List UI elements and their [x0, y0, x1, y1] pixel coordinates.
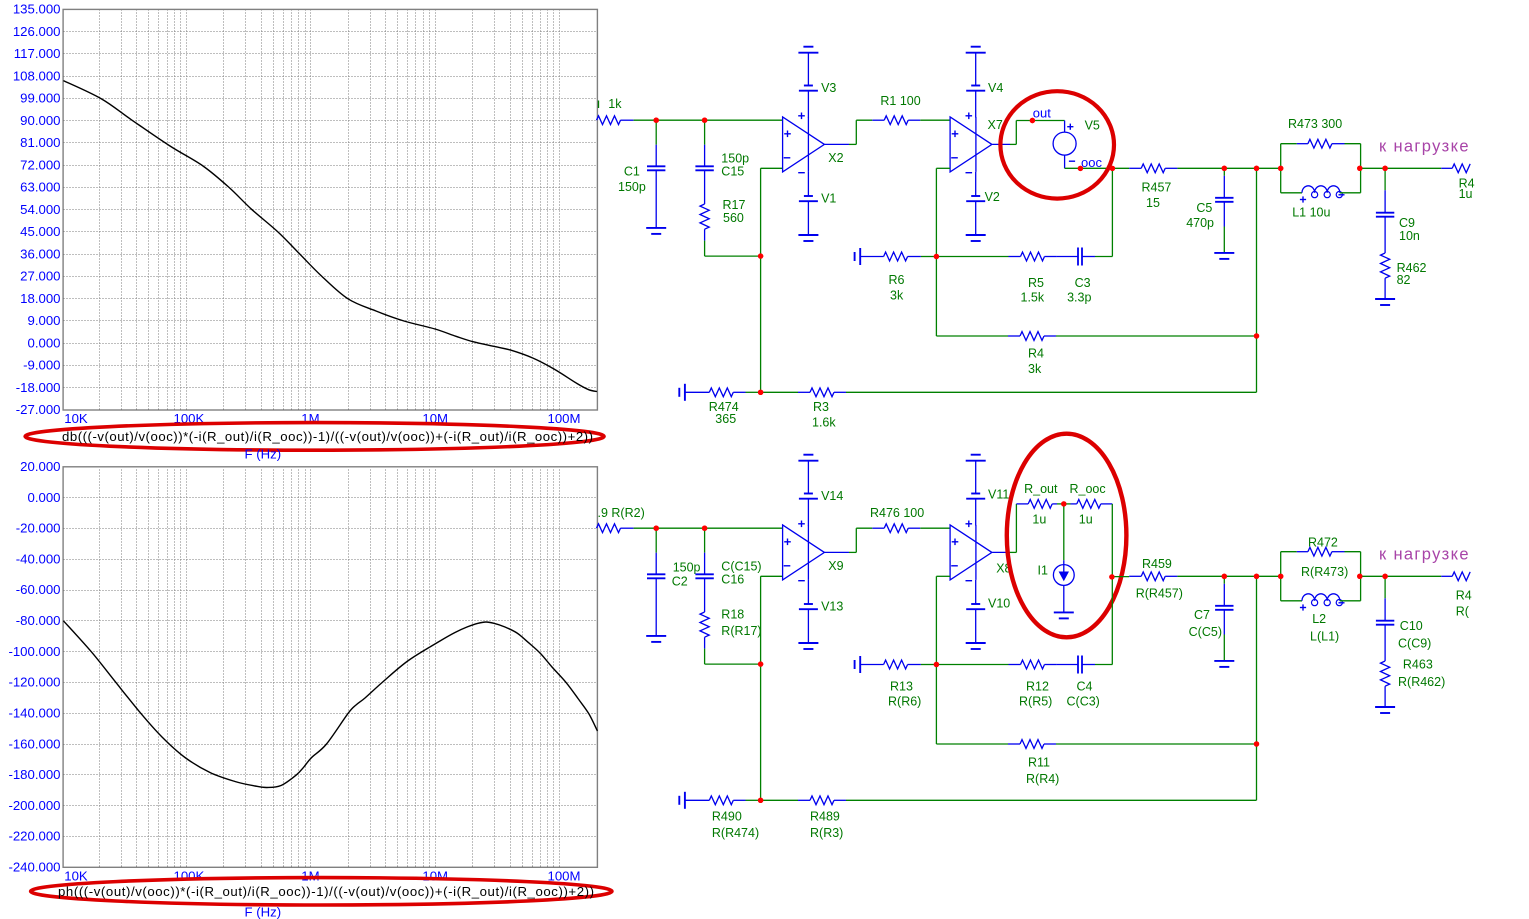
- wire row to rail: [1224, 167, 1256, 169]
- resistor R13 R(R6) [lower]: [860, 660, 936, 708]
- wire feedback row: [936, 256, 1008, 258]
- phase x-axis labels: [64, 869, 580, 884]
- svg-text:R473 300: R473 300: [1288, 117, 1342, 131]
- svg-text:C(C15): C(C15): [721, 560, 761, 574]
- ground above V3: [798, 47, 818, 86]
- resistor R489 R(R3) [lower]: [798, 796, 846, 840]
- ground under C7 [lower]: [1214, 661, 1234, 667]
- svg-text:-60.000: -60.000: [16, 582, 61, 597]
- node C10 junction [lower]: [1382, 574, 1387, 579]
- svg-text:R(R457): R(R457): [1136, 587, 1183, 601]
- svg-text:-27.000: -27.000: [16, 402, 61, 417]
- F (Hz) label bottom: [245, 905, 282, 919]
- svg-text:L1 10u: L1 10u: [1292, 205, 1330, 219]
- node R4 rail junction [lower]: [1254, 741, 1259, 746]
- svg-text:X2: X2: [828, 151, 843, 165]
- resistor R490 R(R474) [lower]: [685, 796, 761, 840]
- svg-text:db(((-v(out)/v(ooc))*(-i(R_out: db(((-v(out)/v(ooc))*(-i(R_out)/i(R_ooc)…: [62, 429, 593, 444]
- svg-text:-160.000: -160.000: [8, 736, 60, 751]
- resistor R472 R(R473) [lower]: [1281, 536, 1361, 601]
- svg-text:150p: 150p: [673, 561, 701, 575]
- svg-text:9.000: 9.000: [27, 313, 60, 328]
- resistor R12 R(R5) [lower]: [1009, 660, 1057, 708]
- svg-text:0.000: 0.000: [27, 335, 60, 350]
- svg-text:C(C5): C(C5): [1189, 625, 1222, 639]
- node C9 junction: [1382, 166, 1387, 171]
- svg-text:F (Hz): F (Hz): [245, 447, 282, 462]
- svg-text:C16: C16: [721, 573, 744, 587]
- capacitor C16 C(C15) [lower]: [695, 528, 761, 612]
- op-amp X8 [lower]: [950, 521, 1011, 581]
- svg-text:18.000: 18.000: [20, 291, 60, 306]
- capacitor C7 C(C5) [lower]: [1189, 576, 1234, 660]
- node box left [lower]: [1278, 574, 1283, 579]
- svg-text:-80.000: -80.000: [16, 613, 61, 628]
- svg-text:560: 560: [723, 211, 744, 225]
- node input junction 2 [lower]: [702, 526, 707, 531]
- svg-text:81.000: 81.000: [20, 135, 60, 150]
- svg-text:54.000: 54.000: [20, 202, 60, 217]
- resistor R11 R(R4) [lower]: [1008, 740, 1257, 786]
- wire -in stub: [761, 167, 783, 169]
- label to-load: [1379, 138, 1469, 156]
- ground below V2: [966, 201, 986, 241]
- svg-text:R12: R12: [1026, 679, 1049, 693]
- source V5: [1053, 119, 1100, 169]
- svg-text:R18: R18: [721, 608, 744, 622]
- svg-text:R_ooc: R_ooc: [1070, 482, 1106, 496]
- capacitor C4 C(C3) [lower]: [1057, 656, 1113, 709]
- resistor R463 R(R462) [lower]: [1381, 658, 1446, 707]
- svg-text:1u: 1u: [1079, 513, 1093, 527]
- label to-load [lower]: [1379, 546, 1469, 564]
- svg-text:10M: 10M: [422, 869, 448, 884]
- resistor R5 1.5k: [1009, 252, 1057, 304]
- svg-text:0.000: 0.000: [27, 490, 60, 505]
- svg-text:.9 R(R2): .9 R(R2): [598, 506, 645, 520]
- red circle annotation V5: [1000, 91, 1114, 198]
- node R4 rail junction: [1254, 333, 1259, 338]
- svg-text:R(R473): R(R473): [1301, 565, 1348, 579]
- svg-text:365: 365: [715, 412, 736, 426]
- resistor R475 R(R2) (input, partially hidden) [lower]: [597, 506, 645, 533]
- ground below V13 [lower]: [798, 609, 818, 649]
- svg-text:C7: C7: [1194, 608, 1210, 622]
- svg-text:-40.000: -40.000: [16, 551, 61, 566]
- svg-text:L2: L2: [1312, 612, 1326, 626]
- svg-text:R_out: R_out: [1024, 482, 1058, 496]
- wire opamp2 -in [lower]: [936, 576, 950, 664]
- svg-text:27.000: 27.000: [20, 269, 60, 284]
- magnitude y-axis labels: [13, 2, 61, 418]
- battery V11 [lower]: [966, 488, 1009, 526]
- svg-text:-220.000: -220.000: [8, 829, 60, 844]
- ground under R462: [1375, 299, 1395, 305]
- svg-text:36.000: 36.000: [20, 246, 60, 261]
- svg-text:3k: 3k: [1028, 362, 1042, 376]
- svg-text:1k: 1k: [608, 97, 622, 111]
- svg-text:90.000: 90.000: [20, 113, 60, 128]
- battery V10 [lower]: [966, 580, 1010, 611]
- svg-text:C3: C3: [1075, 276, 1091, 290]
- svg-text:150p: 150p: [721, 152, 749, 166]
- gain curve db: [63, 81, 597, 392]
- phase curve: [63, 621, 597, 788]
- battery V3: [799, 81, 837, 117]
- resistor R18 R(R17) [lower]: [700, 608, 762, 649]
- svg-text:R4: R4: [1028, 347, 1044, 361]
- svg-text:C15: C15: [721, 165, 744, 179]
- svg-text:R13: R13: [890, 679, 913, 693]
- svg-text:10n: 10n: [1399, 229, 1420, 243]
- svg-text:V13: V13: [821, 599, 843, 613]
- inductor L1 10u: [1281, 186, 1361, 220]
- node feedback junction: [934, 254, 939, 259]
- wire opamp1 output: [824, 120, 872, 144]
- wire bottom feedback row: [761, 391, 1257, 393]
- svg-text:-180.000: -180.000: [8, 767, 60, 782]
- svg-text:R(R474): R(R474): [712, 826, 759, 840]
- node input junction 2: [702, 118, 707, 123]
- wire R17 bottom to -in rail: [705, 241, 761, 257]
- svg-text:1.5k: 1.5k: [1021, 291, 1045, 305]
- wire -in stub [lower]: [761, 575, 783, 577]
- svg-text:R5: R5: [1028, 276, 1044, 290]
- wire input row: [634, 119, 783, 121]
- svg-text:R457: R457: [1142, 181, 1172, 195]
- svg-text:V2: V2: [985, 190, 1000, 204]
- op-amp X7: [950, 113, 1003, 173]
- capacitor C10 C(C9) [lower]: [1376, 576, 1431, 661]
- svg-text:C9: C9: [1399, 216, 1415, 230]
- node -in rail junction [lower]: [758, 661, 763, 666]
- svg-text:20.000: 20.000: [20, 459, 60, 474]
- phase y-axis labels: [8, 459, 60, 875]
- ground left of R490 [lower]: [679, 792, 685, 809]
- svg-text:V4: V4: [988, 81, 1003, 95]
- svg-text:-240.000: -240.000: [8, 860, 60, 875]
- db expression annotation ellipse: [25, 423, 604, 451]
- wire feedback rail right [lower]: [1256, 576, 1258, 800]
- node feedback junction [lower]: [934, 662, 939, 667]
- svg-text:F (Hz): F (Hz): [245, 905, 282, 919]
- node R474 junction [lower]: [758, 798, 763, 803]
- resistor R_out 1u [lower]: [1016, 482, 1063, 527]
- node feedback rail top: [1254, 166, 1259, 171]
- wire -in rail [lower]: [760, 576, 762, 800]
- node R_out/R_ooc junction [lower]: [1061, 501, 1066, 506]
- ground under C1: [646, 228, 666, 234]
- node input junction 1 [lower]: [654, 526, 659, 531]
- wire input row [lower]: [634, 527, 783, 529]
- svg-text:10K: 10K: [64, 411, 88, 426]
- current source I1 [lower]: [1038, 504, 1075, 612]
- node ooc junction: [1110, 166, 1115, 171]
- svg-text:R463: R463: [1403, 658, 1433, 672]
- node box right: [1357, 166, 1362, 171]
- svg-text:R(R5): R(R5): [1019, 695, 1052, 709]
- wire R1 to opamp2 [lower]: [920, 527, 950, 529]
- wire row to rail [lower]: [1224, 575, 1256, 577]
- svg-text:3k: 3k: [890, 289, 904, 303]
- wire C4 riser [lower]: [1111, 577, 1113, 665]
- wire row to LR box: [1257, 167, 1281, 169]
- battery V14 [lower]: [799, 489, 843, 525]
- svg-text:117.000: 117.000: [14, 46, 61, 61]
- svg-text:72.000: 72.000: [20, 157, 60, 172]
- svg-text:15: 15: [1146, 196, 1160, 210]
- svg-text:100M: 100M: [548, 411, 581, 426]
- battery V1: [799, 172, 837, 205]
- resistor R4 3k: [1008, 332, 1257, 376]
- svg-text:10K: 10K: [64, 869, 88, 884]
- capacitor C5 470p: [1186, 168, 1233, 252]
- resistor R17 560: [700, 198, 745, 241]
- wire R1 to opamp2: [920, 119, 950, 121]
- svg-text:R(R4): R(R4): [1026, 772, 1059, 786]
- node feedback rail top (lower) [lower]: [1254, 574, 1259, 579]
- svg-text:ph(((-v(out)/v(ooc))*(-i(R_out: ph(((-v(out)/v(ooc))*(-i(R_out)/i(R_ooc)…: [58, 884, 594, 899]
- wire ooc row [lower]: [1112, 576, 1129, 578]
- wire opamp1 output [lower]: [824, 528, 872, 552]
- resistor R462 82: [1381, 253, 1427, 299]
- battery V2: [966, 172, 1000, 204]
- svg-text:1u: 1u: [1032, 513, 1046, 527]
- svg-text:V14: V14: [821, 489, 843, 503]
- phase plot grid: [64, 467, 598, 868]
- capacitor C9 10n: [1376, 168, 1420, 253]
- svg-text:R11: R11: [1028, 756, 1050, 770]
- magnitude plot grid: [64, 10, 598, 411]
- node ooc row junction [lower]: [1109, 574, 1114, 579]
- red ellipse annotation I1 [lower]: [1007, 434, 1127, 638]
- svg-text:ooc: ooc: [1081, 155, 1102, 170]
- svg-text:82: 82: [1397, 273, 1411, 287]
- inductor L2 L(L1) [lower]: [1281, 594, 1361, 644]
- wire box to load node: [1361, 167, 1442, 169]
- wire feedback rail right: [1256, 168, 1258, 392]
- svg-text:63.000: 63.000: [20, 180, 60, 195]
- wire row to LR box [lower]: [1257, 575, 1281, 577]
- wire R_ooc down [lower]: [1111, 504, 1113, 577]
- svg-text:R(: R(: [1456, 605, 1470, 619]
- svg-text:99.000: 99.000: [20, 91, 60, 106]
- magnitude plot frame: [63, 9, 597, 410]
- wire -in rail to R4 row [lower]: [936, 665, 1008, 745]
- svg-text:-120.000: -120.000: [8, 675, 60, 690]
- svg-text:-200.000: -200.000: [8, 798, 60, 813]
- resistor R6 3k: [860, 252, 936, 302]
- resistor R459 R(R457) [lower]: [1129, 557, 1224, 601]
- capacitor C2 [lower]: [647, 528, 701, 635]
- ground above V14 [lower]: [798, 455, 818, 494]
- svg-text:R3: R3: [813, 400, 829, 414]
- wire X8 output riser [lower]: [992, 504, 1016, 553]
- svg-text:R(R17): R(R17): [721, 624, 761, 638]
- wire C3 riser: [1111, 168, 1113, 256]
- node ooc: [1078, 155, 1103, 171]
- ground under C5: [1214, 253, 1234, 259]
- svg-text:R(R462): R(R462): [1398, 675, 1445, 689]
- svg-text:3.3p: 3.3p: [1067, 291, 1091, 305]
- svg-text:I1: I1: [1038, 564, 1048, 578]
- svg-text:-9.000: -9.000: [23, 358, 60, 373]
- svg-text:C5: C5: [1196, 201, 1212, 215]
- svg-text:C2: C2: [672, 575, 688, 589]
- battery V4: [966, 81, 1003, 117]
- resistor R_ooc 1u [lower]: [1064, 482, 1113, 527]
- svg-text:150p: 150p: [618, 180, 646, 194]
- wire R17 bottom to -in rail [lower]: [705, 649, 761, 665]
- svg-text:out: out: [1033, 105, 1051, 120]
- resistor R457 15: [1129, 164, 1224, 210]
- svg-text:R476 100: R476 100: [870, 506, 924, 520]
- svg-text:V3: V3: [821, 81, 836, 95]
- resistor R3 1.6k: [798, 388, 846, 430]
- phase plot frame: [63, 467, 597, 868]
- svg-text:R1 100: R1 100: [880, 94, 920, 108]
- svg-text:V5: V5: [1085, 119, 1100, 133]
- node input junction 1: [654, 118, 659, 123]
- svg-text:C10: C10: [1400, 619, 1423, 633]
- svg-text:R(R6): R(R6): [888, 695, 921, 709]
- wire -in rail: [760, 168, 762, 392]
- svg-text:1u: 1u: [1459, 187, 1473, 201]
- svg-text:V1: V1: [821, 191, 836, 205]
- wire bottom feedback row [lower]: [761, 799, 1257, 801]
- node R474 junction: [758, 390, 763, 395]
- battery V13 [lower]: [799, 580, 843, 613]
- ph expression annotation ellipse: [31, 878, 612, 905]
- svg-text:R459: R459: [1142, 557, 1172, 571]
- ground above V11 [lower]: [966, 455, 986, 494]
- resistor R2 1k (input, partially hidden): [597, 97, 634, 125]
- svg-text:C1: C1: [624, 164, 640, 178]
- svg-text:45.000: 45.000: [20, 224, 60, 239]
- capacitor C1 150p: [618, 120, 665, 227]
- node -in rail junction: [758, 253, 763, 258]
- svg-text:470p: 470p: [1186, 216, 1214, 230]
- svg-text:100K: 100K: [173, 869, 204, 884]
- resistor R461 (clipped) [lower]: [1441, 572, 1472, 619]
- F (Hz) label top: [245, 447, 282, 462]
- op-amp X9 [lower]: [783, 521, 844, 581]
- svg-text:V10: V10: [988, 597, 1010, 611]
- resistor R474 365: [685, 388, 761, 426]
- resistor R476 100 [lower]: [870, 506, 924, 533]
- svg-text:126.000: 126.000: [13, 24, 61, 39]
- ground left of R6: [855, 248, 861, 265]
- svg-text:R490: R490: [712, 810, 742, 824]
- resistor R1 100: [872, 94, 920, 124]
- svg-text:C(C3): C(C3): [1067, 695, 1100, 709]
- resistor R460 1u (clipped): [1441, 164, 1474, 201]
- db expression text: [62, 429, 593, 444]
- svg-text:R489: R489: [810, 810, 840, 824]
- resistor R473 300: [1281, 117, 1361, 193]
- svg-text:-140.000: -140.000: [8, 706, 60, 721]
- wire box to load node [lower]: [1361, 575, 1442, 577]
- svg-text:V11: V11: [988, 488, 1009, 502]
- wire opamp2 -in: [936, 168, 950, 256]
- wire feedback row [lower]: [936, 664, 1008, 666]
- wire X7 output to out node: [992, 121, 1064, 145]
- svg-text:1.6k: 1.6k: [812, 416, 836, 430]
- svg-text:-20.000: -20.000: [16, 521, 61, 536]
- magnitude x-axis labels: [64, 411, 580, 426]
- svg-text:X9: X9: [828, 559, 843, 573]
- svg-text:135.000: 135.000: [13, 2, 61, 17]
- capacitor C15 150p: [695, 120, 749, 204]
- svg-text:C(C9): C(C9): [1398, 637, 1431, 651]
- ground below I1 [lower]: [1054, 612, 1074, 618]
- svg-text:R472: R472: [1308, 536, 1338, 550]
- wire ooc row: [1065, 167, 1130, 169]
- ground above V4: [966, 47, 986, 86]
- svg-text:-18.000: -18.000: [16, 380, 61, 395]
- svg-text:R4: R4: [1456, 589, 1472, 603]
- node box right [lower]: [1357, 574, 1362, 579]
- op-amp X2: [783, 113, 844, 173]
- svg-text:L(L1): L(L1): [1310, 630, 1339, 644]
- svg-text:C4: C4: [1077, 679, 1093, 693]
- ground left of R13 [lower]: [855, 656, 861, 673]
- svg-text:-100.000: -100.000: [8, 644, 60, 659]
- ground under R463 [lower]: [1375, 707, 1395, 713]
- ground below V1: [798, 201, 818, 241]
- svg-text:R6: R6: [889, 273, 905, 287]
- svg-text:R(R3): R(R3): [810, 826, 843, 840]
- node C5 junction: [1222, 166, 1227, 171]
- svg-text:108.000: 108.000: [13, 68, 61, 83]
- capacitor C3 3.3p: [1057, 248, 1113, 305]
- wire -in rail to R4 row: [936, 257, 1008, 337]
- ground below V10 [lower]: [966, 609, 986, 649]
- ground under C2 [lower]: [646, 636, 666, 642]
- ph expression text: [58, 884, 594, 899]
- node C7 junction [lower]: [1222, 574, 1227, 579]
- junction dots overlay: [654, 118, 1388, 804]
- node out: [1030, 105, 1052, 123]
- ground left of R474: [679, 384, 685, 401]
- node box left: [1278, 166, 1283, 171]
